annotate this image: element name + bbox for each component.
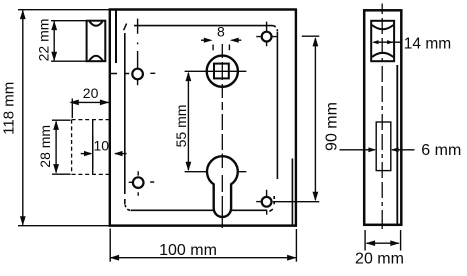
- svg-text:90 mm: 90 mm: [323, 102, 340, 151]
- svg-text:20: 20: [83, 85, 99, 101]
- svg-text:28 mm: 28 mm: [37, 125, 53, 168]
- svg-text:20 mm: 20 mm: [355, 251, 404, 268]
- svg-text:55 mm: 55 mm: [173, 105, 189, 148]
- svg-text:14 mm: 14 mm: [404, 36, 451, 53]
- svg-text:10: 10: [94, 138, 110, 154]
- svg-text:6 mm: 6 mm: [421, 142, 461, 159]
- svg-text:8: 8: [217, 24, 225, 40]
- svg-text:100 mm: 100 mm: [159, 242, 217, 259]
- svg-text:22 mm: 22 mm: [35, 19, 51, 62]
- svg-text:118 mm: 118 mm: [1, 82, 18, 135]
